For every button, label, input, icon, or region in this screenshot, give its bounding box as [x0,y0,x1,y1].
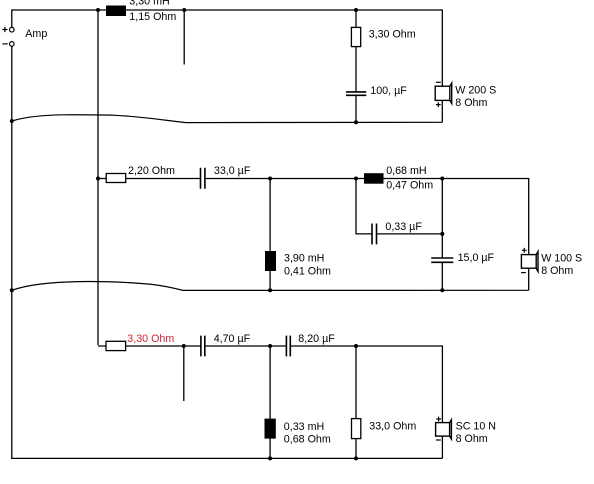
wire positive rail top [12,10,443,86]
resistor R2 [106,174,126,183]
svg-text:W 200 S: W 200 S [455,85,496,97]
wire R4 branch [355,346,357,458]
SP1 plus mark [436,102,441,107]
wire speaker SP2 bottom lead [528,268,530,290]
wire C1 bottom [355,95,357,122]
svg-text:3,90 mH: 3,90 mH [284,253,324,265]
node stub junction low [182,344,186,348]
node C1 bottom junction [354,120,358,124]
wire L3 branch [269,179,271,291]
wire L4 branch [269,346,271,458]
inductor L3 [265,251,276,271]
wire R1 branch [355,10,357,92]
wire squiggle return mid section [12,282,529,291]
amp - terminal [3,42,15,47]
svg-text:0,68 mH: 0,68 mH [386,165,426,177]
node left rail squiggle 2 junction [10,288,14,292]
wire C3 parallel loop [356,179,442,234]
node mid rail junction [96,177,100,181]
wire C4 branch [441,179,443,291]
capacitor C6 [286,336,290,357]
capacitor C1 [346,92,366,95]
node left rail squiggle 1 junction [10,119,14,123]
wire negative left rail [12,46,443,458]
capacitor C3 [372,224,377,245]
capacitor C4 [431,258,453,262]
svg-text:0,41 Ohm: 0,41 Ohm [284,265,331,277]
node L4 bottom junction [268,456,272,460]
svg-text:8 Ohm: 8 Ohm [541,265,573,277]
svg-text:1,15 Ohm: 1,15 Ohm [129,11,176,23]
svg-text:0,47 Ohm: 0,47 Ohm [386,179,433,191]
node R4 top junction [354,344,358,348]
capacitor C5 [201,336,205,357]
node C4 bottom junction [440,288,444,292]
capacitor C2 [201,168,205,189]
speaker SP3 SC 10 N [436,420,452,439]
node L2 left junction [354,177,358,181]
svg-text:33,0 µF: 33,0 µF [214,165,251,177]
node top rail junction B [182,8,186,12]
svg-text:0,68 Ohm: 0,68 Ohm [284,434,331,446]
svg-text:2,20 Ohm: 2,20 Ohm [128,165,175,177]
node C3 right junction [440,232,444,236]
SP3 minus mark [436,439,441,441]
resistor R4 [352,419,361,439]
amp + terminal [2,27,14,32]
resistor R3 [106,341,126,350]
node L3 top junction [268,177,272,181]
node R4 bottom junction [354,456,358,460]
wire squiggle return top section [12,115,443,123]
speaker SP2 W 100 S [521,251,538,271]
svg-text:Amp: Amp [25,28,47,40]
svg-text:3,30 Ohm: 3,30 Ohm [127,333,174,345]
node R1 top junction [354,8,358,12]
svg-text:3,30 mH: 3,30 mH [129,0,169,8]
svg-text:8 Ohm: 8 Ohm [456,433,488,445]
svg-text:0,33 µF: 0,33 µF [385,221,422,233]
wire mid branch [98,179,529,255]
svg-text:3,30 Ohm: 3,30 Ohm [369,29,416,41]
SP1 minus mark [436,81,441,83]
wire low branch [98,346,442,423]
node L3 bottom junction [268,288,272,292]
inductor L1 [106,6,126,17]
wire speaker SP3 bottom lead [441,436,443,458]
SP2 minus mark [521,272,526,274]
node L4 top junction [268,344,272,348]
SP2 plus mark [522,248,527,253]
svg-text:33,0 Ohm: 33,0 Ohm [369,420,416,432]
wire main distribution rail [97,10,99,345]
wire dangling stub low [183,346,185,401]
speaker SP1 W 200 S [435,83,452,103]
wire speaker SP1 bottom lead [441,100,443,122]
svg-text:W 100 S: W 100 S [541,253,582,265]
svg-text:100, µF: 100, µF [370,85,407,97]
svg-text:8 Ohm: 8 Ohm [455,97,487,109]
inductor L4 [265,419,276,439]
node L2 right junction [440,177,444,181]
inductor L2 [364,173,384,184]
svg-text:8,20 µF: 8,20 µF [298,333,335,345]
svg-text:0,33 mH: 0,33 mH [284,421,324,433]
svg-text:15,0 µF: 15,0 µF [458,252,495,264]
svg-text:4,70 µF: 4,70 µF [214,333,251,345]
resistor R1 [351,27,360,46]
node top rail junction A [96,8,100,12]
SP3 plus mark [436,417,441,422]
wire dangling stub below node B [183,10,185,65]
svg-text:SC 10 N: SC 10 N [456,421,496,433]
